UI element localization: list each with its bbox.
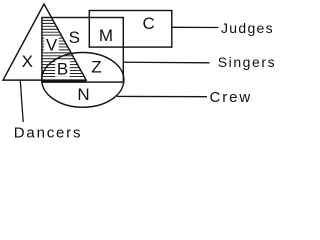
svg-text:N: N <box>77 85 89 104</box>
svg-text:X: X <box>22 52 33 71</box>
pointer line Singers <box>123 61 209 64</box>
svg-text:Crew: Crew <box>210 89 253 106</box>
svg-text:V: V <box>46 35 58 54</box>
white patch behind B <box>55 60 70 77</box>
bottom edge band where triangle and rectangle bottoms overlap <box>42 80 86 83</box>
svg-text:Judges: Judges <box>221 20 274 36</box>
svg-text:M: M <box>99 26 113 45</box>
svg-text:C: C <box>142 14 154 33</box>
svg-text:Dancers: Dancers <box>14 124 82 141</box>
rectangle Singers <box>42 18 123 83</box>
pointer line Dancers <box>20 81 23 123</box>
svg-text:S: S <box>69 28 80 47</box>
svg-text:B: B <box>57 59 68 78</box>
hatch region triangle-rectangle intersection <box>40 20 90 76</box>
ellipse Crew <box>42 53 124 108</box>
rectangle Judges <box>89 11 172 48</box>
pointer line Crew <box>117 95 207 97</box>
svg-text:Z: Z <box>91 58 101 77</box>
svg-text:Singers: Singers <box>218 54 276 70</box>
triangle Dancers <box>3 4 86 80</box>
pointer line Judges <box>172 26 219 28</box>
white patch behind V <box>44 36 59 52</box>
